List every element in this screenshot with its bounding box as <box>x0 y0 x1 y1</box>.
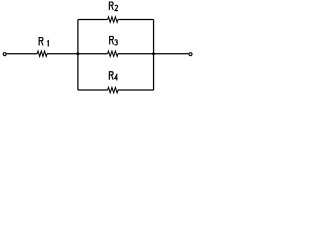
resistor R3 <box>108 51 118 56</box>
wire left terminal to R1 <box>7 53 38 55</box>
label R4 <box>109 72 117 81</box>
resistor R2 <box>108 17 118 22</box>
label R3 <box>110 36 118 45</box>
node B junction dot <box>152 52 155 55</box>
resistor R4 <box>108 87 118 92</box>
wire bottom rail left <box>78 89 108 91</box>
wire top rail right <box>118 19 154 21</box>
wire left rail <box>77 20 79 91</box>
wire top rail left <box>78 19 108 21</box>
left terminal <box>3 53 6 56</box>
label R1 <box>39 38 48 47</box>
node A junction dot <box>76 52 79 55</box>
wire R1 to node A <box>47 53 78 55</box>
wire bottom rail right <box>118 89 154 91</box>
wire middle branch left <box>78 53 108 55</box>
wire node B to right terminal <box>154 53 189 55</box>
right terminal <box>189 53 192 56</box>
wire middle branch right <box>118 53 154 55</box>
resistor R1 <box>37 51 47 56</box>
wire right rail <box>153 20 155 91</box>
label R2 <box>109 2 118 11</box>
